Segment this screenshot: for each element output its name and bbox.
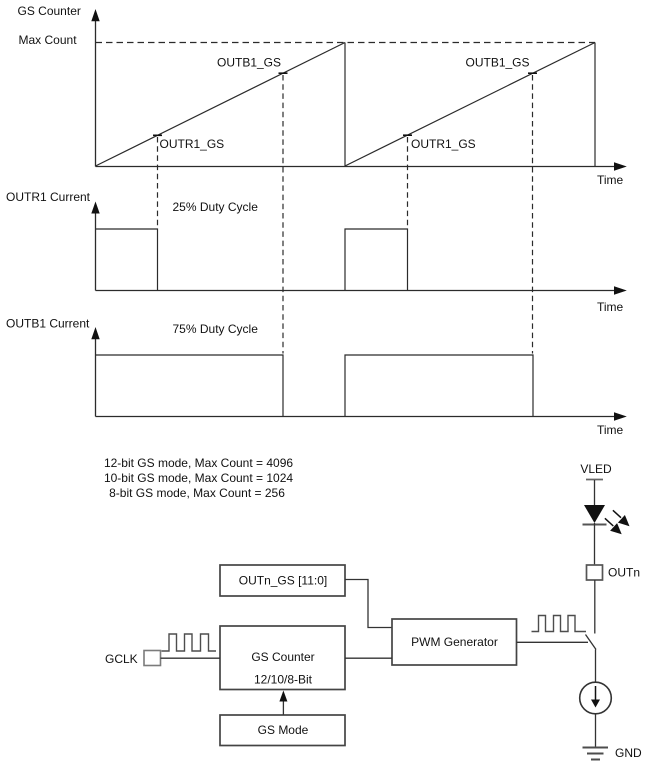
OUTB1 pulse 1 xyxy=(96,355,284,417)
OUTR1_GS tick period1 xyxy=(153,134,162,136)
dashed drop line OUTB1 period1 xyxy=(282,75,284,354)
GCLK input pad xyxy=(144,651,161,666)
svg-text:OUTR1_GS: OUTR1_GS xyxy=(160,137,225,151)
OUTB1 pulse 2 xyxy=(345,355,533,417)
svg-text:8-bit GS mode, Max Count = 256: 8-bit GS mode, Max Count = 256 xyxy=(109,486,285,500)
svg-text:OUTn: OUTn xyxy=(608,565,640,579)
wire GCLK to GS Counter xyxy=(161,657,221,659)
GS Counter Y axis xyxy=(91,9,99,167)
svg-text:GS Counter: GS Counter xyxy=(251,650,314,664)
svg-text:VLED: VLED xyxy=(580,462,612,476)
VLED supply rail xyxy=(586,479,603,481)
wire LED cathode to OUTn pad xyxy=(594,523,596,565)
dashed drop line OUTB1 period2 xyxy=(532,75,534,354)
sawtooth reset 1 xyxy=(344,43,346,167)
svg-text:PWM Generator: PWM Generator xyxy=(411,635,498,649)
svg-text:Time: Time xyxy=(597,300,624,314)
GS Mode box U3 xyxy=(220,715,345,746)
wire OUTn_GS to PWM Generator xyxy=(345,580,392,628)
dashed drop line OUTR1 period2 xyxy=(407,137,409,228)
switch arm xyxy=(586,635,597,650)
chart2 time axis xyxy=(96,286,627,294)
svg-text:Time: Time xyxy=(597,423,624,437)
LED D1 xyxy=(584,505,605,523)
svg-text:12-bit GS mode, Max Count = 40: 12-bit GS mode, Max Count = 4096 xyxy=(104,456,293,470)
wire GS Counter to PWM Generator xyxy=(345,657,392,659)
LED cathode bar xyxy=(583,524,607,526)
ground xyxy=(583,748,609,760)
svg-text:OUTR1 Current: OUTR1 Current xyxy=(6,190,91,204)
OUTR1 pulse 2 xyxy=(345,229,408,291)
chart3 time axis xyxy=(96,412,627,420)
sawtooth ramp 2 xyxy=(345,43,595,167)
OUTR1_GS tick period2 xyxy=(403,134,412,136)
OUTB1_GS tick period1 xyxy=(279,72,288,74)
svg-text:OUTn_GS [11:0]: OUTn_GS [11:0] xyxy=(239,574,327,588)
wire OUTn pad to switch xyxy=(594,580,596,634)
svg-text:OUTB1 Current: OUTB1 Current xyxy=(6,316,90,330)
svg-text:OUTB1_GS: OUTB1_GS xyxy=(466,56,530,70)
dashed drop line OUTR1 period1 xyxy=(157,137,159,228)
chart1 time axis xyxy=(96,162,627,170)
LED light arrow 1 xyxy=(613,510,630,526)
arrow GS Mode to GS Counter xyxy=(279,691,287,715)
wire VLED to LED anode xyxy=(594,480,596,505)
svg-text:GCLK: GCLK xyxy=(105,652,138,666)
sawtooth ramp 1 xyxy=(96,43,346,167)
LED light arrow 2 xyxy=(605,518,622,534)
PWM output pulse glyph xyxy=(532,616,587,632)
GS Counter box U2 xyxy=(220,626,345,690)
OUTR1 pulse 1 xyxy=(96,229,158,291)
svg-text:GND: GND xyxy=(615,746,642,760)
svg-text:OUTB1_GS: OUTB1_GS xyxy=(217,56,281,70)
svg-text:GS Mode: GS Mode xyxy=(258,723,309,737)
Max Count dashed level line xyxy=(96,42,596,44)
svg-text:OUTR1_GS: OUTR1_GS xyxy=(411,137,476,151)
svg-text:75% Duty Cycle: 75% Duty Cycle xyxy=(173,322,259,336)
GCLK clock pulse glyph xyxy=(162,634,217,651)
svg-text:12/10/8-Bit: 12/10/8-Bit xyxy=(254,672,313,686)
svg-text:Time: Time xyxy=(597,173,624,187)
wire switch to current source xyxy=(595,650,597,683)
svg-text:10-bit GS mode, Max Count = 10: 10-bit GS mode, Max Count = 1024 xyxy=(104,471,293,485)
chart2 Y axis xyxy=(91,202,99,291)
svg-text:Max Count: Max Count xyxy=(19,33,78,47)
OUTB1_GS tick period2 xyxy=(528,72,537,74)
OUTn pad xyxy=(587,565,603,580)
chart3 Y axis xyxy=(91,327,99,417)
svg-text:GS Counter: GS Counter xyxy=(18,4,81,18)
sawtooth reset 2 xyxy=(594,43,596,167)
OUTn_GS register box U1 xyxy=(220,565,345,596)
PWM Generator box U4 xyxy=(392,619,517,665)
current source I1 xyxy=(580,682,612,714)
svg-text:25% Duty Cycle: 25% Duty Cycle xyxy=(173,200,259,214)
wire PWM Generator output xyxy=(517,641,589,643)
wire current source to ground xyxy=(595,714,597,747)
